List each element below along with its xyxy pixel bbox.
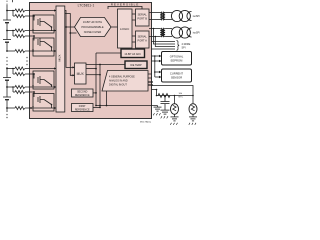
wire C1 into MUX	[25, 10, 56, 12]
wire 1st ref	[93, 106, 100, 108]
serial port A	[136, 31, 150, 48]
battery B3	[3, 67, 11, 87]
wire riser A	[95, 53, 97, 106]
reference second box	[72, 89, 94, 97]
wire S1	[25, 15, 34, 17]
svg-text:4 GENERAL PURPOSE: 4 GENERAL PURPOSE	[109, 75, 135, 78]
MUX main	[56, 6, 65, 112]
wire C5 into MUX	[25, 86, 56, 88]
LOGIC block	[118, 9, 133, 48]
svg-text:16-BIT ΔΣ WITH: 16-BIT ΔΣ WITH	[83, 20, 102, 24]
ground under C2	[161, 110, 170, 118]
wire MUX2 out B	[86, 74, 100, 76]
svg-text:DIGITAL IN/OUT: DIGITAL IN/OUT	[109, 84, 127, 87]
IC body LTC6811	[30, 3, 152, 119]
switch box Q3 outline	[33, 71, 54, 89]
wire C3 into MUX	[25, 50, 56, 52]
discharge switch Q1	[32, 16, 52, 31]
ground under TH1	[170, 117, 178, 125]
wire LOGIC-portB	[132, 13, 136, 15]
battery B1	[3, 20, 11, 31]
resistor R6	[15, 67, 25, 70]
GPIO block	[102, 71, 148, 92]
svg-text:SERIAL: SERIAL	[138, 35, 148, 39]
wire to thermistor2	[152, 86, 194, 104]
resistor R7	[15, 73, 25, 76]
resistor R10	[15, 107, 25, 110]
wire MUX out B	[65, 14, 75, 76]
transformer T1	[149, 10, 192, 21]
EEPROM optional box	[162, 52, 192, 66]
second ADC box	[121, 49, 145, 58]
wire S1 branch	[12, 11, 14, 17]
resistor R1	[15, 9, 25, 12]
wire ADC tap A	[66, 26, 76, 28]
MUX2	[75, 63, 87, 84]
resistor R3	[15, 29, 25, 32]
wire ADC2 feed	[96, 52, 121, 54]
svg-text:REFERENCE: REFERENCE	[75, 109, 90, 112]
resistor R5	[15, 50, 25, 53]
svg-text:SERIAL: SERIAL	[138, 13, 148, 17]
node ellipsis rail mid	[6, 57, 28, 66]
ground under TH2	[189, 117, 197, 125]
wire SPI taps	[152, 29, 176, 50]
wire C5	[7, 86, 15, 88]
svg-text:EEPROM: EEPROM	[171, 58, 183, 62]
wire MUX out A	[65, 11, 75, 68]
wire S4 branch	[12, 87, 14, 92]
node ellipsis rail bottom	[6, 114, 8, 119]
switch box Q4 outline	[33, 94, 54, 112]
transformer T2	[149, 27, 192, 38]
current sensor box	[162, 69, 192, 82]
thermistor TH2	[189, 104, 197, 117]
wire riser B	[99, 65, 101, 108]
svg-text:NTC: NTC	[179, 97, 184, 99]
svg-text:MUX: MUX	[57, 55, 61, 62]
resistor R9	[15, 91, 25, 94]
wire V- into MUX	[25, 107, 56, 109]
wire V- out	[96, 105, 158, 107]
svg-text:SENSOR: SENSOR	[171, 76, 182, 80]
svg-text:SPI: SPI	[182, 47, 186, 50]
svg-text:PROGRAMMABLE: PROGRAMMABLE	[81, 25, 103, 29]
wire thermistor branch	[152, 90, 157, 96]
wire S3 branch	[12, 69, 14, 75]
battery B2	[3, 31, 11, 52]
resistor R11	[158, 94, 170, 98]
wire GPIO pin stubs	[148, 82, 153, 85]
node junction dots left	[6, 10, 35, 109]
wire die temp to MUX2	[86, 64, 125, 66]
wire ADC tap B	[70, 32, 76, 34]
svg-text:REVERSIBLE: REVERSIBLE	[111, 2, 139, 6]
svg-text:CURRENT: CURRENT	[170, 72, 183, 76]
ground at V- pin	[153, 106, 161, 116]
serial port B	[136, 9, 150, 26]
svg-text:6811 TA01a: 6811 TA01a	[140, 120, 152, 123]
switch box Q1 outline	[33, 15, 54, 33]
svg-text:LTC6811-1: LTC6811-1	[78, 4, 95, 8]
svg-text:4-WIRE: 4-WIRE	[182, 43, 191, 46]
wire S2 branch	[12, 31, 14, 37]
label REVERSIBLE	[108, 2, 142, 9]
svg-text:REFERENCE: REFERENCE	[75, 94, 90, 97]
node dots center	[95, 64, 107, 109]
wire top stub S0	[12, 0, 14, 2]
wire battery rail top	[6, 5, 8, 20]
wire S4	[25, 91, 34, 93]
svg-text:OPTIONAL: OPTIONAL	[170, 54, 184, 58]
discharge switch Q3	[32, 74, 52, 87]
wire thermistor row	[157, 95, 194, 97]
discharge switch Q2	[32, 36, 52, 51]
wire C2	[7, 30, 15, 32]
svg-text:PORT B: PORT B	[137, 17, 147, 21]
wire arrowheads into MUX2	[73, 66, 75, 76]
svg-text:16-BIT ΔΣ ADC: 16-BIT ΔΣ ADC	[124, 53, 141, 56]
svg-text:DIE TEMP: DIE TEMP	[130, 64, 142, 67]
wire C4	[7, 68, 15, 70]
wire EEPROM bus	[152, 56, 160, 77]
svg-text:NOISE FILTER: NOISE FILTER	[84, 30, 102, 34]
discharge switch Q4	[32, 92, 52, 108]
wire MUX2 to ADC2 riser	[86, 68, 96, 70]
switch box Q2 outline	[33, 38, 54, 56]
wire S2	[25, 35, 34, 37]
wire C1	[7, 10, 15, 12]
svg-text:MUX: MUX	[77, 72, 85, 76]
thermistor TH1	[171, 96, 179, 117]
wire C3	[7, 50, 15, 52]
die temp box	[125, 61, 147, 69]
wire LOGIC-portA	[132, 35, 136, 37]
wire C2 into MUX	[25, 30, 56, 32]
wire 2nd ref	[93, 92, 96, 94]
label 10k	[179, 93, 184, 99]
svg-text:isoSPI: isoSPI	[193, 32, 200, 35]
node ADC taps	[65, 26, 71, 34]
label 4-wire SPI	[177, 41, 191, 51]
resistor R2	[15, 15, 25, 18]
wire arrowheads into MUX	[54, 9, 56, 109]
wire V-	[7, 107, 15, 109]
wire GPIO V- drop	[106, 91, 108, 106]
battery B4	[3, 87, 11, 112]
resistor R8	[15, 86, 25, 89]
node dots bottom	[156, 89, 194, 97]
svg-text:isoSPI: isoSPI	[193, 15, 200, 18]
resistor R4	[15, 35, 25, 38]
wire ADC to LOGIC	[111, 26, 118, 28]
wire S3	[25, 73, 34, 75]
reference first box	[72, 104, 94, 112]
ADC1 16-bit delta-sigma	[75, 18, 112, 37]
wire top stub	[6, 1, 8, 6]
svg-text:PORT A: PORT A	[137, 39, 147, 43]
wire GPIO pins	[148, 74, 152, 78]
capacitor C2	[161, 96, 170, 111]
svg-text:LOGIC: LOGIC	[120, 27, 130, 31]
svg-text:ANALOG IN AND: ANALOG IN AND	[109, 80, 128, 83]
wire C4 into MUX	[25, 68, 56, 70]
